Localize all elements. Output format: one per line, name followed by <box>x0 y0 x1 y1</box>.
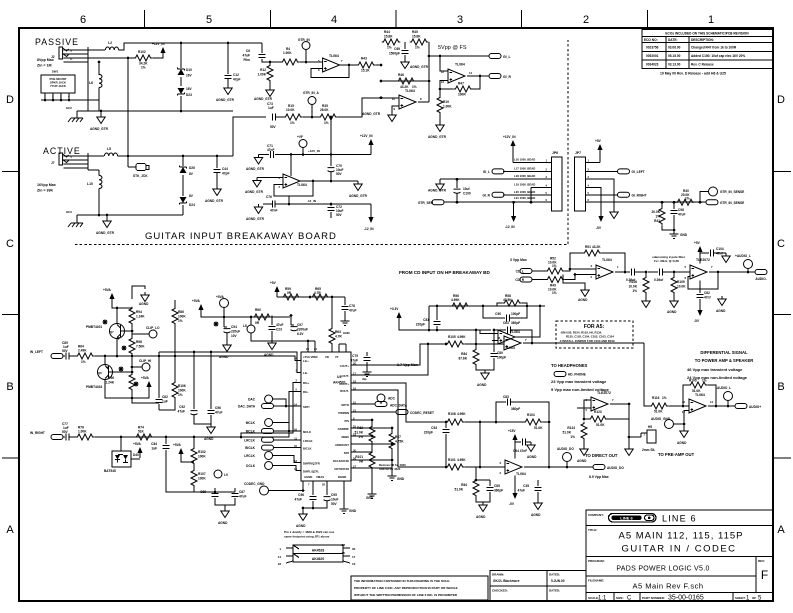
svg-text:AGND: AGND <box>304 475 312 479</box>
svg-text:SP3: SP3 <box>344 451 350 455</box>
wire <box>216 156 218 168</box>
wire <box>340 64 357 66</box>
resistor R40 <box>676 199 695 205</box>
svg-text:Added C150: 10uf cap elec 16V: Added C150: 10uf cap elec 16V 20% <box>691 54 745 58</box>
svg-text:47uF: 47uF <box>178 410 185 414</box>
svg-text:30: 30 <box>352 547 356 551</box>
svg-text:FILENAME:: FILENAME: <box>588 579 604 583</box>
svg-text:+AUDIO_L: +AUDIO_L <box>735 254 751 258</box>
ground AGND_GTR below C12 <box>224 85 232 95</box>
wire <box>420 343 428 345</box>
svg-text:C93: C93 <box>431 426 437 430</box>
wire <box>467 75 489 77</box>
svg-text:14: 14 <box>710 400 714 404</box>
wire <box>182 175 184 196</box>
svg-text:C44: C44 <box>222 167 228 171</box>
svg-text:+12V_IN: +12V_IN <box>360 134 373 138</box>
svg-text:47uF: 47uF <box>351 359 358 363</box>
svg-text:0R: 0R <box>359 460 364 464</box>
svg-text:R84: R84 <box>461 352 467 356</box>
terminal CD_R <box>520 277 532 282</box>
wire <box>640 433 642 437</box>
wire <box>699 253 701 264</box>
svg-text:15.8K: 15.8K <box>412 35 421 39</box>
junction top rail at zeners <box>180 42 183 45</box>
svg-text:C6: C6 <box>246 49 250 53</box>
svg-text:DAC_DATA: DAC_DATA <box>238 405 256 409</box>
svg-text:R12: R12 <box>260 68 266 72</box>
asterisk Q6 c <box>134 382 139 387</box>
wire <box>583 440 585 446</box>
svg-text:OCLK/CKS0: OCLK/CKS0 <box>333 459 350 463</box>
svg-text:ROUT+: ROUT+ <box>339 382 349 386</box>
svg-text:LOUT-: LOUT- <box>341 374 349 378</box>
wire <box>305 50 307 63</box>
wire <box>131 325 133 338</box>
svg-text:R44: R44 <box>384 30 390 34</box>
wire <box>276 293 278 297</box>
wire <box>226 333 228 342</box>
svg-text:R102: R102 <box>198 450 206 454</box>
svg-text:PWRDN: PWRDN <box>338 411 349 415</box>
wire <box>223 308 225 318</box>
wire <box>41 100 99 111</box>
svg-text:L18 1000_BEAD: L18 1000_BEAD <box>514 174 535 178</box>
wire <box>87 47 89 111</box>
svg-text:1%: 1% <box>552 291 557 295</box>
svg-text:CLIP_LO: CLIP_LO <box>146 326 160 330</box>
svg-text:47nF: 47nF <box>267 148 274 152</box>
wire <box>351 451 372 453</box>
wire <box>251 333 308 352</box>
wire <box>277 296 345 298</box>
Line 6 logo <box>609 514 657 523</box>
wire <box>440 80 454 89</box>
svg-text:C23: C23 <box>276 328 282 332</box>
input jack J2 <box>59 47 63 59</box>
svg-text:OSR/DIF: OSR/DIF <box>338 427 350 431</box>
svg-text:1:1: 1:1 <box>598 596 607 602</box>
svg-text:AGND: AGND <box>578 298 588 302</box>
ground AGND_GTR at U1A input <box>253 178 261 188</box>
wire <box>121 330 133 332</box>
svg-text:C69: C69 <box>394 47 400 51</box>
svg-text:R101: R101 <box>355 455 363 459</box>
op-amp U20-B TL064 <box>498 330 515 344</box>
wire <box>683 385 689 406</box>
svg-text:R62: R62 <box>357 426 363 430</box>
svg-text:R108: R108 <box>448 412 456 416</box>
wire <box>250 316 252 326</box>
svg-text:220uF: 220uF <box>231 330 240 334</box>
svg-text:AGND: AGND <box>219 355 229 359</box>
svg-text:0023756: 0023756 <box>646 46 659 50</box>
wire <box>288 196 290 204</box>
wire <box>351 390 446 467</box>
wire <box>174 300 176 307</box>
wire <box>159 399 175 410</box>
svg-text:LINE 6: LINE 6 <box>662 514 697 524</box>
wire <box>531 186 552 188</box>
svg-text:IN_LEFT: IN_LEFT <box>30 350 43 354</box>
svg-text:R105: R105 <box>448 335 456 339</box>
inductor L2 <box>105 47 118 50</box>
svg-text:AGND_GTR: AGND_GTR <box>90 127 109 131</box>
svg-text:D23: D23 <box>186 93 192 97</box>
svg-text:AUDIO_GND: AUDIO_GND <box>651 417 671 421</box>
svg-text:1.00K: 1.00K <box>78 430 87 434</box>
svg-text:REV:: REV: <box>758 559 765 563</box>
svg-text:ADC_DATA: ADC_DATA <box>390 404 408 408</box>
wire <box>210 352 212 409</box>
svg-text:SDTI: SDTI <box>303 405 310 409</box>
capacitor C87 <box>232 494 239 497</box>
svg-text:L19 1000_BEAD: L19 1000_BEAD <box>514 182 535 186</box>
svg-text:C80: C80 <box>497 351 503 355</box>
svg-text:L2: L2 <box>108 41 112 45</box>
wire <box>404 55 406 59</box>
svg-text:Add 0R for 4520: Add 0R for 4520 <box>379 467 401 471</box>
svg-text:L16 1000_BEAD: L16 1000_BEAD <box>514 158 535 162</box>
svg-text:D: D <box>6 94 14 106</box>
speaker jack SW1 box <box>41 75 75 93</box>
resistor R105t <box>446 341 465 347</box>
wire <box>180 77 182 86</box>
svg-text:+12V_IN: +12V_IN <box>152 42 165 46</box>
wire <box>391 468 393 472</box>
svg-text:LIn-: LIn- <box>303 371 308 375</box>
svg-text:C62: C62 <box>162 395 168 399</box>
svg-text:A5 Main Rev F.sch: A5 Main Rev F.sch <box>632 582 703 591</box>
svg-text:AGND: AGND <box>677 441 687 445</box>
transistor Q6 PMBT4403 <box>98 365 113 380</box>
wire <box>68 93 70 100</box>
svg-text:47uF: 47uF <box>215 411 222 415</box>
svg-text:Pin 1 Justify = 4628 & 4620: Pin 1 Justify = 4628 & 4620 can use <box>284 530 335 534</box>
svg-text:6: 6 <box>80 14 86 26</box>
wire <box>747 269 749 273</box>
svg-text:BICLK: BICLK <box>303 447 312 451</box>
svg-text:16V: 16V <box>186 87 193 91</box>
svg-text:PMBT4401: PMBT4401 <box>86 325 102 329</box>
svg-text:JP7: JP7 <box>575 151 581 155</box>
wire <box>44 93 46 100</box>
svg-text:R103: R103 <box>689 379 697 383</box>
wire <box>344 311 346 317</box>
svg-text:TL064: TL064 <box>455 63 465 67</box>
svg-text:AGND: AGND <box>264 353 274 357</box>
svg-text:AGND: AGND <box>527 455 537 459</box>
wire <box>100 111 102 114</box>
wire <box>159 352 301 373</box>
footprint AK4528 outline <box>293 545 343 554</box>
svg-text:R101: R101 <box>448 458 456 462</box>
terminal CODEC_GND <box>260 486 269 495</box>
svg-text:R135, C103, C104, C102, C103,: R135, C103, C104, C102, C103, C104 <box>566 335 614 339</box>
wire <box>194 491 235 493</box>
svg-text:5.JUN.00: 5.JUN.00 <box>551 579 565 583</box>
wire <box>275 203 372 205</box>
op-amp U20-A TL064 <box>596 265 613 279</box>
svg-text:TLE2072: TLE2072 <box>696 258 710 262</box>
wire <box>586 162 601 164</box>
terminal AUDIO-L oval <box>755 270 767 275</box>
svg-text:VMAS: VMAS <box>316 475 324 479</box>
svg-text:C104: C104 <box>716 247 724 251</box>
svg-text:GF2: GF2 <box>66 106 72 110</box>
svg-text:GTR_IN_SENSE: GTR_IN_SENSE <box>720 201 744 205</box>
svg-text:GTR_IN: GTR_IN <box>298 38 310 42</box>
svg-text:C100: C100 <box>463 192 471 196</box>
wire <box>586 194 618 196</box>
wire <box>152 54 163 58</box>
resistor R4 <box>281 59 300 65</box>
svg-text:1%: 1% <box>570 435 575 439</box>
inductor L5 <box>104 153 117 156</box>
svg-text:R41: R41 <box>654 219 660 223</box>
op-amp U17-A top TL064 <box>504 336 521 350</box>
wire <box>343 547 350 549</box>
svg-text:C87: C87 <box>239 490 245 494</box>
terminal +5VA circle <box>220 299 229 308</box>
svg-text:C95: C95 <box>331 493 337 497</box>
wire <box>165 450 167 458</box>
svg-text:1%: 1% <box>662 396 667 400</box>
svg-text:PROPERTY OF LINE 6 INC. ANY R: PROPERTY OF LINE 6 INC. ANY REPRODUCTION… <box>354 586 458 590</box>
wire <box>445 422 447 428</box>
svg-text:MCLK: MCLK <box>246 430 256 434</box>
terminal CD_L <box>520 269 532 274</box>
wire <box>510 402 549 422</box>
wire <box>570 253 583 269</box>
svg-text:GND: GND <box>349 509 357 513</box>
wire <box>326 481 328 495</box>
svg-text:03.06.00: 03.06.00 <box>668 46 681 50</box>
wire <box>308 340 315 342</box>
svg-text:OF: OF <box>752 596 756 600</box>
svg-text:+5V: +5V <box>595 139 602 143</box>
resistor R108 <box>446 419 465 425</box>
wire <box>645 294 647 298</box>
wire <box>439 114 441 122</box>
svg-text:43.2K: 43.2K <box>592 245 601 249</box>
svg-text:28: 28 <box>342 543 346 547</box>
wire <box>69 436 76 438</box>
svg-text:C92: C92 <box>179 405 185 409</box>
svg-text:GUITAR INPUT BREAKAWAY BOARD: GUITAR INPUT BREAKAWAY BOARD <box>145 231 337 242</box>
svg-text:1%: 1% <box>178 393 183 397</box>
svg-text:GI_L: GI_L <box>483 170 490 174</box>
ferrite L9 <box>214 470 222 478</box>
svg-text:L9: L9 <box>224 473 228 477</box>
codec U4 AK4520 <box>301 352 351 481</box>
svg-text:14: 14 <box>469 71 473 75</box>
asterisk Q7 <box>103 320 108 325</box>
svg-text:+12V_IN: +12V_IN <box>503 135 516 139</box>
wire <box>180 96 182 111</box>
svg-text:15.8K: 15.8K <box>384 35 393 39</box>
wire <box>351 383 446 422</box>
svg-text:C97: C97 <box>297 323 303 327</box>
wire <box>668 405 689 407</box>
wire <box>429 55 489 57</box>
svg-text:10uf: 10uf <box>463 187 470 191</box>
svg-text:360pF: 360pF <box>494 489 503 493</box>
svg-text:1.24K: 1.24K <box>136 315 145 319</box>
svg-text:C: C <box>777 238 785 250</box>
svg-text:ADC: ADC <box>388 397 396 401</box>
svg-text:R51: R51 <box>585 245 591 249</box>
resistor R65 <box>311 294 330 300</box>
svg-text:47pF: 47pF <box>233 78 240 82</box>
wire <box>371 443 373 452</box>
wire <box>214 488 216 492</box>
wire <box>302 116 319 118</box>
svg-text:-AUDIO_L: -AUDIO_L <box>716 386 731 390</box>
svg-text:C96: C96 <box>298 493 304 497</box>
wire <box>98 189 100 215</box>
wire <box>274 181 313 196</box>
resistor R86 <box>172 307 178 326</box>
svg-text:Zin = 1M: Zin = 1M <box>37 64 51 68</box>
wire <box>98 170 100 175</box>
wire <box>63 355 65 357</box>
resistor R45 <box>410 39 429 45</box>
svg-text:DGND: DGND <box>338 475 346 479</box>
wire <box>275 154 371 156</box>
wire <box>158 352 160 398</box>
svg-text:10.0K: 10.0K <box>677 285 686 289</box>
svg-text:1500pF: 1500pF <box>389 52 400 56</box>
svg-text:-5V: -5V <box>694 319 700 323</box>
svg-text:Rev. C Release: Rev. C Release <box>691 63 714 67</box>
drawn-checked table <box>490 571 586 602</box>
wire <box>391 428 393 433</box>
wire <box>496 402 506 422</box>
svg-text:C63: C63 <box>503 321 509 325</box>
svg-text:F: F <box>761 568 768 582</box>
wire <box>366 362 368 368</box>
wire <box>564 269 596 271</box>
wire <box>60 93 62 100</box>
svg-text:IN_RIGHT: IN_RIGHT <box>30 431 45 435</box>
svg-text:GND: GND <box>397 477 405 481</box>
ground dip below C79 <box>363 368 372 376</box>
wire <box>337 98 399 117</box>
svg-text:SHEET:: SHEET: <box>735 596 746 600</box>
svg-text:D10: D10 <box>186 68 192 72</box>
svg-text:LRCLK: LRCLK <box>244 438 255 442</box>
svg-text:1%: 1% <box>632 289 637 293</box>
wire <box>483 306 505 318</box>
ground below C78 <box>341 317 350 325</box>
capacitor C71 <box>271 151 274 158</box>
svg-text:16: 16 <box>352 562 356 566</box>
asterisk Q6 b <box>119 367 124 372</box>
svg-text:1uF: 1uF <box>151 447 157 451</box>
svg-text:47uF: 47uF <box>518 489 525 493</box>
ground AGND_GTR below C44 <box>213 186 221 196</box>
svg-text:2mm SIL: 2mm SIL <box>642 448 655 452</box>
svg-text:AGND_GTR: AGND_GTR <box>362 112 381 116</box>
wire <box>514 441 516 459</box>
wire <box>314 341 316 352</box>
wire <box>193 487 195 492</box>
svg-text:C35: C35 <box>523 484 529 488</box>
svg-text:PART NUMBER:: PART NUMBER: <box>642 596 665 600</box>
revision table <box>642 30 773 69</box>
svg-text:360pF: 360pF <box>511 321 520 325</box>
svg-text:DATED:: DATED: <box>549 573 560 577</box>
svg-text:GK/JL Blackmore: GK/JL Blackmore <box>493 579 520 583</box>
wire <box>174 325 176 356</box>
wire <box>263 203 273 205</box>
wire <box>563 275 585 288</box>
op-amp U17-D TLE2072 <box>591 397 608 411</box>
svg-text:L5: L5 <box>107 147 111 151</box>
svg-text:+5V: +5V <box>270 281 277 285</box>
wire <box>330 204 332 206</box>
svg-text:51.0K: 51.0K <box>354 431 363 435</box>
wire <box>64 53 89 55</box>
svg-text:CLIP_HI: CLIP_HI <box>139 359 151 363</box>
wire <box>273 423 289 432</box>
wire <box>513 202 515 214</box>
ground AGND right of C82 <box>718 296 726 306</box>
svg-text:10V: 10V <box>231 334 238 338</box>
svg-text:AGND: AGND <box>476 515 486 519</box>
svg-text:DESCRIPTION:: DESCRIPTION: <box>691 38 714 42</box>
wire <box>87 153 89 170</box>
svg-text:AGND_GTR: AGND_GTR <box>96 231 115 235</box>
wire <box>343 561 350 563</box>
terminal ADC_DATA <box>375 402 387 407</box>
svg-text:1%: 1% <box>290 121 295 125</box>
wire <box>509 306 527 318</box>
wire <box>497 303 503 306</box>
wire <box>286 547 293 549</box>
svg-text:COMPANY:: COMPANY: <box>588 513 604 517</box>
svg-text:MCLK: MCLK <box>246 421 256 425</box>
wire <box>524 466 593 468</box>
svg-text:1%: 1% <box>387 46 392 50</box>
terminal DAC <box>265 395 273 403</box>
svg-text:SDTO: SDTO <box>341 403 350 407</box>
power +12V_IN arrow left <box>370 143 372 150</box>
wire <box>537 480 539 486</box>
wire <box>302 148 304 155</box>
svg-text:R94: R94 <box>136 310 142 314</box>
junction dots ground bus <box>100 110 103 113</box>
wire <box>684 411 689 425</box>
terminal AUDIO_DO circle <box>563 453 572 462</box>
wire <box>472 76 480 89</box>
svg-text:L8: L8 <box>243 324 247 328</box>
wire <box>290 316 292 326</box>
svg-text:4.99K: 4.99K <box>457 335 466 339</box>
resistor R104 <box>524 419 543 425</box>
svg-text:47.5K: 47.5K <box>503 298 512 302</box>
wire <box>275 116 284 118</box>
terminal +VF <box>299 140 307 148</box>
wire <box>210 415 212 424</box>
resistor R59 <box>282 294 301 300</box>
svg-text:100K: 100K <box>198 477 206 481</box>
wire <box>641 432 647 434</box>
wire <box>94 392 301 438</box>
terminal LRCLK circle <box>265 452 273 460</box>
resistor R63 <box>329 327 335 346</box>
